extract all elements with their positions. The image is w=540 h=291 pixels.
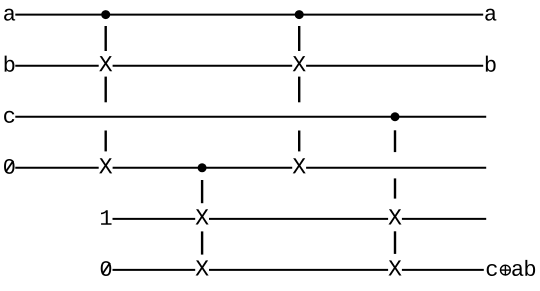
gate column 2: connector dash rail4-rail5 <box>201 180 203 203</box>
wire 0 (rail 4) right segment <box>306 167 486 169</box>
gate column 3: control dot on wire a <box>295 10 304 19</box>
gate column 1: connector dash b-c <box>104 77 106 103</box>
gate column 3: connector dash c-rail4 <box>298 131 300 152</box>
gate column 1: connector dash a-b <box>104 26 106 51</box>
gate column 4: connector dash rail4-rail5 <box>394 178 396 198</box>
wire 1 (rail 5) left segment <box>113 218 196 220</box>
xor symbol horizontal bar <box>501 269 511 271</box>
input label a <box>4 9 15 21</box>
wire 1 (rail 5) middle segment <box>209 218 388 220</box>
output label a <box>485 9 496 21</box>
gate column 2: connector dash rail5-rail6 <box>201 231 203 254</box>
gate column 4: control dot on wire c <box>391 112 400 121</box>
input label 0 (rail 4) <box>4 159 15 174</box>
wire b (rail 2) middle segment <box>113 65 293 67</box>
gate column 1: control dot on wire a <box>101 10 110 19</box>
wire 1 (rail 5) right segment <box>402 218 486 220</box>
wire 0 (rail 6) left segment <box>113 269 196 271</box>
gate column 2: X gate on rail 5 <box>196 209 209 224</box>
wire 0 (rail 4) middle segment <box>113 167 293 169</box>
wire a (rail 1) <box>15 14 483 16</box>
wire 0 (rail 4) left segment <box>15 167 98 169</box>
wire 0 (rail 6) right segment <box>402 269 484 271</box>
gate column 2: X gate on rail 6 <box>196 260 209 275</box>
slash of zero (rail 4) <box>6 161 14 172</box>
gate column 1: X gate on rail 4 <box>99 158 112 173</box>
output label letter c of c+ab <box>487 264 497 276</box>
xor symbol vertical bar <box>504 265 506 275</box>
gate column 1: X gate on wire b <box>99 56 112 71</box>
slash of zero (rail 6) <box>102 263 110 274</box>
gate column 2: control dot on rail 4 <box>198 163 207 172</box>
output label letter b of c+ab <box>525 260 535 276</box>
gate column 3: connector dash a-b <box>298 26 300 51</box>
input label 1 (rail 5) <box>101 210 112 224</box>
gate column 4: connector dash c-rail4 <box>394 130 396 152</box>
output label letter a of c+ab <box>512 264 523 276</box>
gate column 3: connector dash b-c <box>298 77 300 103</box>
gate column 1: connector dash c-rail4 <box>104 131 106 152</box>
gate column 4: connector dash rail5-rail6 <box>394 231 396 254</box>
wire b (rail 2) right segment <box>306 65 483 67</box>
gate column 3: X gate on rail 4 <box>293 158 306 173</box>
wire 0 (rail 6) middle segment <box>209 269 388 271</box>
input label 0 (rail 6) <box>101 261 112 276</box>
wire c (rail 3) <box>15 116 486 118</box>
wire b (rail 2) left segment <box>15 65 98 67</box>
input label b <box>5 56 15 72</box>
output label b <box>486 56 496 72</box>
gate column 4: X gate on rail 6 <box>389 260 402 275</box>
xor symbol circle <box>501 265 511 275</box>
gate column 4: X gate on rail 5 <box>389 209 402 224</box>
input label c <box>4 111 14 123</box>
gate column 3: X gate on wire b <box>293 56 306 71</box>
